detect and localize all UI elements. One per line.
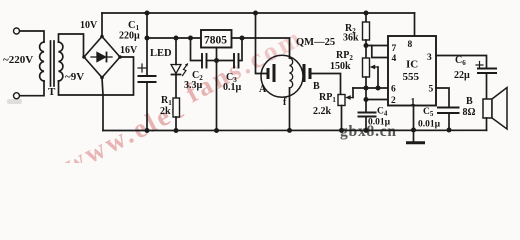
node 7805 ground rail (214, 128, 219, 133)
svg-text:4: 4 (392, 54, 397, 64)
wire top rail (102, 12, 415, 14)
wire bridge plus up to top rail (101, 13, 103, 37)
node LED tap (174, 36, 179, 41)
svg-text:3.3µ: 3.3µ (184, 80, 203, 91)
capacitor C1 (138, 13, 156, 131)
capacitor C2 (191, 38, 217, 68)
node pin1 rail (411, 128, 416, 133)
node bridge top vertex (100, 35, 104, 39)
svg-text:36k: 36k (343, 33, 359, 44)
node RP2 bottom (364, 86, 369, 91)
wire 7805 ground pin (216, 48, 218, 131)
svg-text:10V: 10V (80, 20, 98, 31)
svg-text:~9V: ~9V (65, 71, 84, 83)
bridge rectifier (84, 37, 120, 78)
wire pin 8 (414, 13, 416, 36)
svg-text:7: 7 (392, 44, 397, 54)
potentiometer RP1 (338, 88, 353, 130)
node C4 rail (364, 128, 369, 133)
node R2 top rail (364, 11, 369, 16)
svg-text:8Ω: 8Ω (463, 107, 476, 118)
svg-text:0.01µ: 0.01µ (368, 118, 391, 128)
wire pin 1 (413, 106, 415, 130)
svg-text:7805: 7805 (204, 35, 227, 47)
wire electrode B to RP1 (312, 74, 341, 95)
node C2 tap (188, 36, 193, 41)
sensor heater coil (290, 58, 293, 88)
svg-text:2.2k: 2.2k (313, 106, 332, 117)
op IC 555 box (388, 36, 436, 106)
node C1 top rail (145, 11, 150, 16)
svg-text:5: 5 (429, 85, 434, 95)
node sub-rail at C1 (145, 36, 150, 41)
transformer T primary winding (40, 42, 44, 81)
svg-text:QM—25: QM—25 (296, 37, 335, 48)
svg-text:B: B (313, 81, 320, 92)
sensor electrode A (267, 64, 276, 82)
svg-text:8: 8 (408, 40, 413, 50)
wire pin 5 (436, 88, 449, 108)
regulator 7805 (201, 30, 232, 48)
bridge diode (91, 53, 112, 62)
wire 5V rail 7805 to sensor (232, 38, 290, 58)
wire (20, 81, 44, 96)
svg-text:A: A (259, 84, 267, 95)
node heater rail (287, 128, 292, 133)
wire 10V sub-rail to 7805 (147, 37, 201, 39)
node C2 C3 ground (214, 58, 219, 63)
wire secondary bottom to bridge right vertex (59, 57, 134, 95)
wire pin 6 (353, 87, 388, 89)
transformer T secondary winding (59, 42, 63, 81)
capacitor C4 (359, 100, 376, 131)
node pin2 C4 (364, 97, 369, 102)
node bridge bottom vertex (100, 76, 104, 80)
svg-text:0.01µ: 0.01µ (418, 120, 441, 130)
node bridge right vertex (118, 55, 122, 59)
transformer core (50, 41, 52, 86)
wire pin 2 (366, 88, 388, 100)
node bridge left vertex (82, 55, 86, 59)
resistor R2 (363, 13, 370, 58)
capacitor C5 (438, 108, 459, 130)
capacitor C6 (476, 62, 496, 100)
wire secondary top to bridge (59, 34, 84, 57)
svg-text:0.1µ: 0.1µ (223, 82, 242, 93)
node C3 output tap (240, 36, 245, 41)
svg-text:220µ: 220µ (119, 31, 140, 42)
wire (20, 31, 44, 42)
wire pin 3 (436, 56, 487, 69)
svg-text:6: 6 (391, 85, 396, 95)
wire electrode A to top rail (256, 13, 267, 74)
svg-text:2k: 2k (160, 106, 171, 117)
scan smudge (7, 99, 22, 104)
node R2 RP2 pin7 (364, 43, 369, 48)
svg-text:3: 3 (427, 53, 432, 63)
svg-text:22µ: 22µ (454, 70, 470, 81)
wire bottom rail (103, 129, 487, 131)
wire pin 4 (372, 46, 388, 58)
svg-text:IC: IC (406, 59, 418, 71)
node RP2 wiper (376, 86, 381, 91)
svg-text:555: 555 (403, 71, 420, 83)
speaker B (483, 88, 507, 131)
watermark www.elecfans.com (59, 22, 308, 180)
resistor R1 (173, 98, 180, 131)
wire pin 7 (366, 45, 388, 47)
wire bridge minus down to bottom rail (102, 78, 103, 131)
node C5 rail (447, 128, 452, 133)
node A wire top rail (253, 11, 258, 16)
node RP1 rail (339, 128, 344, 133)
terminal input top (14, 28, 20, 34)
svg-text:~220V: ~220V (3, 54, 33, 66)
LED (171, 38, 181, 98)
potentiometer RP2 (363, 58, 379, 88)
LED light arrow (183, 63, 188, 75)
node C1 bottom rail (145, 128, 150, 133)
svg-text:B: B (466, 96, 473, 107)
gas sensor QM-25 body (261, 55, 303, 97)
svg-text:16V: 16V (120, 45, 138, 56)
terminal input bottom (14, 93, 20, 99)
svg-text:T: T (48, 86, 56, 98)
capacitor C3 (217, 38, 243, 68)
svg-text:1: 1 (411, 98, 416, 108)
svg-text:LED: LED (150, 48, 172, 59)
ground (408, 130, 424, 143)
node R1 bottom rail (174, 128, 179, 133)
svg-text:2: 2 (391, 96, 396, 106)
wire heater to bottom rail (289, 88, 291, 130)
svg-text:150k: 150k (330, 61, 351, 72)
sensor electrode B (303, 64, 312, 82)
